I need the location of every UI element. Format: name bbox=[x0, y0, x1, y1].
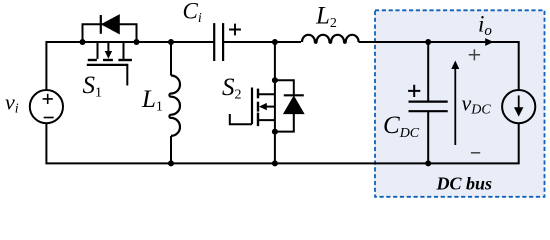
wire: L1 top lead bbox=[170, 42, 172, 76]
plus sign vDC bbox=[469, 49, 480, 60]
wire: CDC top lead bbox=[427, 42, 429, 102]
DC bus label bbox=[436, 173, 493, 193]
wire: S1 diode branch bbox=[83, 24, 137, 42]
svg-text:DC bus: DC bus bbox=[436, 173, 493, 193]
body diode of S1 bbox=[101, 15, 120, 34]
current source bbox=[502, 90, 535, 123]
node dot S2 bottom rail bbox=[272, 160, 278, 166]
wire: S2 to bottom rail bbox=[274, 132, 276, 164]
label L2 bbox=[315, 3, 337, 32]
current arrow io on rail bbox=[485, 38, 493, 46]
minus sign vDC bbox=[471, 152, 480, 154]
switch S2 MOSFET bbox=[230, 88, 275, 127]
capacitor CDC bbox=[409, 102, 448, 112]
svg-text:L2: L2 bbox=[315, 3, 337, 32]
wire: CDC bottom lead bbox=[427, 111, 429, 163]
node dot S2 top rail bbox=[272, 39, 278, 45]
voltage source vi bbox=[30, 90, 63, 123]
inductor L2 bbox=[302, 35, 359, 43]
wire: S2 channel spine bbox=[274, 80, 276, 131]
svg-text:L1: L1 bbox=[141, 86, 163, 115]
node dot S1 right bbox=[134, 39, 140, 45]
svg-text:Ci: Ci bbox=[183, 0, 202, 26]
node dot L1 bottom bbox=[168, 160, 174, 166]
label L1 bbox=[141, 86, 163, 115]
plus sign of Ci bbox=[229, 24, 241, 36]
label CDC bbox=[383, 112, 420, 141]
inductor L1 bbox=[169, 76, 180, 136]
voltage arrow vDC bbox=[451, 61, 459, 146]
wire: S2 branch from rail bbox=[274, 42, 276, 80]
node dot CDC bottom bbox=[425, 160, 431, 166]
node dot L1 top bbox=[168, 39, 174, 45]
node dot CDC top bbox=[425, 39, 431, 45]
wire: top rail L2 to current source bbox=[359, 42, 519, 90]
svg-text:S2: S2 bbox=[222, 74, 242, 103]
switch S1 MOSFET bbox=[87, 42, 132, 86]
node dot S2 top bbox=[272, 77, 278, 83]
label Ci bbox=[183, 0, 202, 26]
svg-text:S1: S1 bbox=[83, 72, 103, 101]
wire: top rail left (source to Ci) bbox=[46, 42, 214, 90]
capacitor Ci bbox=[214, 23, 223, 61]
label S1 bbox=[83, 72, 103, 101]
label vi bbox=[5, 90, 19, 117]
DC bus dashed region bbox=[375, 10, 545, 197]
svg-text:vi: vi bbox=[5, 90, 19, 117]
plus sign of CDC bbox=[408, 85, 420, 97]
wire: top rail Ci to L2 bbox=[223, 41, 301, 43]
node dot S1 left bbox=[80, 39, 86, 45]
label S2 bbox=[222, 74, 242, 103]
wire: L1 bottom lead bbox=[170, 136, 172, 164]
label vDC bbox=[462, 91, 492, 118]
node dot S2 bottom bbox=[272, 129, 278, 135]
wire: bottom rail bbox=[46, 123, 518, 163]
label io bbox=[478, 11, 492, 39]
body diode of S2 bbox=[275, 80, 304, 131]
